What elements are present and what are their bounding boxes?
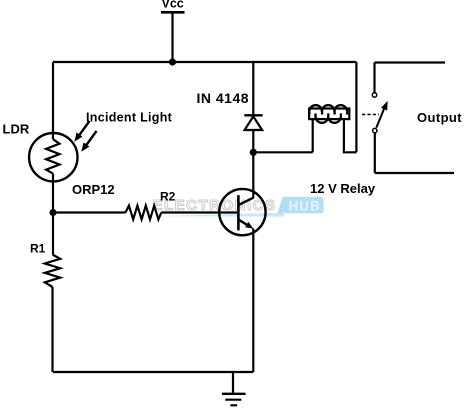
wire node to relay coil left terminal <box>253 119 312 153</box>
diode D1 IN4148 <box>244 115 262 152</box>
junction dot at Vcc node <box>169 58 176 65</box>
wire emitter vertical <box>252 229 254 373</box>
svg-text:12 V Relay: 12 V Relay <box>310 181 376 196</box>
wire top rail to diode <box>252 62 254 115</box>
junction dot diode/coil/collector node <box>250 149 257 156</box>
wire collector vertical <box>252 152 254 198</box>
svg-text:HUB: HUB <box>289 199 321 214</box>
ground <box>222 372 246 405</box>
wire LDR to base node <box>52 174 54 213</box>
resistor R1 <box>45 213 60 373</box>
svg-text:Vcc: Vcc <box>162 0 184 11</box>
transistor Q1 <box>219 189 265 235</box>
relay switch lower contact <box>373 128 377 173</box>
svg-text:ORP12: ORP12 <box>72 182 115 197</box>
power VCC <box>161 0 185 62</box>
svg-text:IN 4148: IN 4148 <box>197 90 250 106</box>
dashed actuation link <box>362 114 379 116</box>
wire base node to R2 <box>53 211 126 213</box>
relay coil K1 <box>309 105 349 123</box>
wire left rail upper segment <box>52 62 54 139</box>
wire output top <box>375 61 446 63</box>
LDR ORP12 <box>29 133 77 181</box>
wire relay coil right terminal to top rail <box>344 62 357 152</box>
wire output bottom <box>375 172 454 174</box>
incident light arrow 1 <box>74 121 89 142</box>
svg-text:R2: R2 <box>160 189 176 203</box>
wire top rail <box>53 61 356 63</box>
relay switch upper contact <box>372 63 376 98</box>
svg-text:R1: R1 <box>30 242 46 256</box>
svg-text:Output: Output <box>417 110 462 125</box>
wire R2 to transistor base <box>161 211 237 213</box>
incident light arrow 2 <box>81 131 96 152</box>
wire bottom rail <box>53 371 253 373</box>
svg-text:Incident Light: Incident Light <box>86 110 173 124</box>
relay switch lever arrow <box>376 101 387 128</box>
junction dot LDR/R1/R2 node <box>49 209 56 216</box>
resistor R2 <box>126 206 162 220</box>
svg-text:LDR: LDR <box>3 122 30 137</box>
